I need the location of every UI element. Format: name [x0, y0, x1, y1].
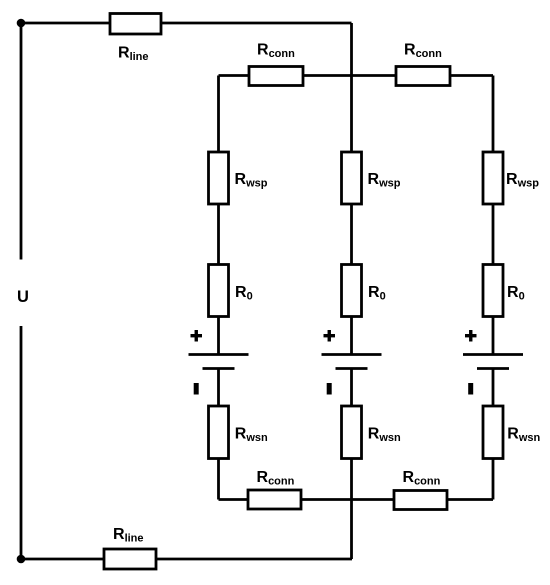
wire: top rail from source to center branch: [21, 22, 352, 25]
resistor R0 (branch 1): [209, 265, 229, 317]
wire: bottom interconnect rail: [219, 498, 494, 501]
resistor Rwsn (branch 1): [209, 406, 229, 459]
resistor Rconn (top left): [249, 67, 303, 86]
svg-text:Rconn: Rconn: [257, 469, 295, 488]
svg-text:R0: R0: [235, 284, 253, 303]
battery cell 2 negative plate: [336, 367, 368, 370]
battery cell 2 positive plate: [322, 353, 382, 356]
wire: branch 2 lower: [350, 369, 353, 560]
resistor Rwsn (branch 3): [483, 406, 503, 459]
battery cell 1 plus mark: [191, 334, 203, 337]
battery cell 3 negative plate: [477, 367, 509, 370]
svg-text:R0: R0: [368, 284, 386, 303]
svg-text:Rwsp: Rwsp: [506, 171, 539, 190]
svg-text:Rwsn: Rwsn: [507, 426, 540, 445]
resistor Rwsp (branch 3): [483, 152, 503, 204]
wire: branch 1 upper: [217, 76, 220, 355]
wire: branch 1 lower: [217, 369, 220, 500]
svg-text:Rconn: Rconn: [404, 42, 442, 61]
svg-text:R0: R0: [507, 284, 525, 303]
battery cell 1 minus mark: [194, 383, 199, 395]
svg-text:Rline: Rline: [118, 45, 149, 64]
svg-text:Rwsp: Rwsp: [235, 171, 268, 190]
resistor Rline (top): [110, 14, 161, 35]
wire: left rail lower segment: [20, 326, 23, 559]
node: source negative terminal: [17, 555, 26, 564]
svg-text:Rline: Rline: [113, 526, 144, 545]
svg-text:Rconn: Rconn: [257, 42, 295, 61]
wire: bottom rail from source to center branch: [21, 558, 352, 561]
resistor Rline (bottom): [104, 549, 156, 569]
svg-text:Rwsp: Rwsp: [368, 171, 401, 190]
wire: left rail upper segment: [20, 23, 23, 260]
resistor Rconn (bottom left): [248, 490, 301, 509]
battery cell 3 minus mark: [468, 383, 473, 395]
wire: branch 2 upper: [350, 23, 353, 355]
resistor R0 (branch 2): [342, 265, 362, 317]
svg-text:Rwsn: Rwsn: [368, 426, 401, 445]
wire: top interconnect rail: [219, 74, 494, 77]
resistor Rwsp (branch 1): [209, 152, 229, 204]
battery cell 3 positive plate: [463, 353, 523, 356]
battery cell 2 minus mark: [327, 383, 332, 395]
wire: branch 3 upper: [492, 76, 495, 355]
battery cell 3 plus mark: [465, 334, 477, 337]
wire: branch 3 lower: [492, 369, 495, 500]
resistor R0 (branch 3): [483, 265, 503, 317]
svg-text:Rconn: Rconn: [403, 469, 441, 488]
battery cell 2 plus mark: [324, 334, 336, 337]
battery cell 1 positive plate: [189, 353, 249, 356]
svg-text:Rwsn: Rwsn: [235, 426, 268, 445]
resistor Rwsp (branch 2): [342, 152, 362, 204]
battery cell 1 negative plate: [203, 367, 235, 370]
resistor Rconn (bottom right): [394, 491, 447, 510]
node: source positive terminal: [17, 19, 26, 28]
resistor Rconn (top right): [396, 67, 450, 86]
resistor Rwsn (branch 2): [342, 406, 362, 459]
svg-text:U: U: [17, 288, 29, 306]
